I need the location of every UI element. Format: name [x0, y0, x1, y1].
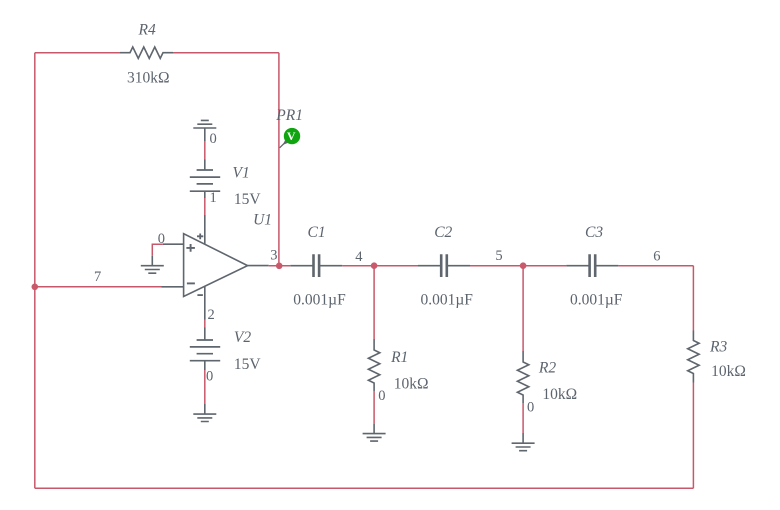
- wire V1 to op-amp V+: [204, 198, 206, 215]
- ground (op-amp + input): [141, 256, 164, 273]
- ground (R1): [363, 424, 386, 441]
- svg-text:0.001µF: 0.001µF: [570, 292, 623, 309]
- svg-text:R1: R1: [390, 349, 408, 366]
- svg-text:310kΩ: 310kΩ: [127, 70, 170, 87]
- svg-text:0.001µF: 0.001µF: [293, 292, 346, 309]
- svg-text:10kΩ: 10kΩ: [394, 376, 429, 393]
- wire top rail right segment: [173, 52, 279, 54]
- wire V2 to ground: [204, 370, 206, 404]
- svg-text:V2: V2: [234, 329, 251, 346]
- wire R1 to ground: [373, 391, 375, 424]
- node 5 label: [495, 248, 502, 264]
- node 2 label: [208, 307, 215, 323]
- svg-text:R2: R2: [538, 359, 556, 376]
- svg-text:U1: U1: [253, 212, 272, 229]
- wire left vertical (node 7): [34, 53, 36, 489]
- svg-text:V: V: [287, 129, 296, 143]
- node 3 label: [270, 248, 277, 264]
- ground (below V2): [193, 404, 216, 422]
- svg-text:15V: 15V: [234, 191, 262, 208]
- svg-text:R4: R4: [138, 22, 156, 39]
- node 0 label (R1): [378, 388, 385, 404]
- resistor R1: [368, 339, 428, 393]
- wire node 4 down to R1: [373, 266, 375, 339]
- svg-text:PR1: PR1: [275, 107, 303, 124]
- wire node 7 to inverting input: [35, 286, 162, 288]
- wire node 5 down to R2: [522, 266, 524, 351]
- svg-text:2: 2: [208, 307, 215, 323]
- junction node 5: [520, 262, 527, 269]
- wire ground to V1: [204, 141, 206, 160]
- svg-text:5: 5: [495, 248, 502, 264]
- node 0 label (above V1): [210, 131, 217, 147]
- ground (above V1, inverted): [193, 120, 216, 141]
- svg-text:C3: C3: [585, 224, 603, 241]
- wire C2 to node 5: [470, 265, 566, 267]
- node 0 label (below V2): [206, 368, 213, 384]
- wire C1 to node 4: [342, 265, 418, 267]
- op-amp U1: [162, 212, 273, 320]
- svg-text:1: 1: [210, 190, 217, 206]
- node 0 label (op-amp + input): [158, 231, 165, 247]
- node 0 label (R2): [527, 399, 534, 415]
- wire feedback vertical (node 3 up): [278, 53, 280, 266]
- junction node 7: [32, 284, 39, 291]
- node 7 label: [94, 269, 101, 285]
- node 1 label: [210, 190, 217, 206]
- battery V2: [190, 328, 262, 373]
- wire R2 to ground: [522, 403, 524, 433]
- svg-text:15V: 15V: [234, 356, 262, 373]
- probe PR1: [275, 107, 303, 148]
- resistor R3: [688, 331, 746, 383]
- resistor R4: [120, 22, 173, 87]
- resistor R2: [517, 351, 577, 403]
- battery V1: [190, 160, 262, 208]
- svg-text:R3: R3: [709, 339, 727, 356]
- svg-text:4: 4: [355, 249, 363, 265]
- svg-text:0.001µF: 0.001µF: [421, 292, 474, 309]
- junction node 3: [276, 263, 283, 270]
- capacitor C2: [418, 224, 473, 309]
- wire R3 down to bottom rail: [692, 383, 694, 489]
- wire op-amp output to C1: [269, 265, 291, 267]
- junction node 4: [371, 262, 378, 269]
- wire top rail left segment: [35, 52, 120, 54]
- svg-text:7: 7: [94, 269, 101, 285]
- capacitor C1: [290, 224, 346, 309]
- svg-text:10kΩ: 10kΩ: [711, 363, 746, 380]
- svg-text:6: 6: [653, 248, 660, 264]
- wire ground to + input: [152, 244, 163, 256]
- wire C3 to node 6 corner: [618, 265, 693, 267]
- wire node 6 down to R3: [692, 266, 694, 331]
- node 4 label: [355, 249, 363, 265]
- svg-text:3: 3: [270, 248, 277, 264]
- svg-text:0: 0: [210, 131, 217, 147]
- svg-text:0: 0: [378, 388, 385, 404]
- svg-text:0: 0: [527, 399, 534, 415]
- svg-text:C1: C1: [308, 224, 326, 241]
- node 6 label: [653, 248, 660, 264]
- svg-text:0: 0: [206, 368, 213, 384]
- svg-text:C2: C2: [434, 224, 452, 241]
- svg-text:V1: V1: [233, 164, 250, 181]
- ground (R2): [512, 433, 535, 451]
- svg-text:10kΩ: 10kΩ: [542, 386, 577, 403]
- capacitor C3: [566, 224, 622, 309]
- wire op-amp V- to V2: [204, 320, 206, 328]
- wire bottom rail: [35, 487, 694, 489]
